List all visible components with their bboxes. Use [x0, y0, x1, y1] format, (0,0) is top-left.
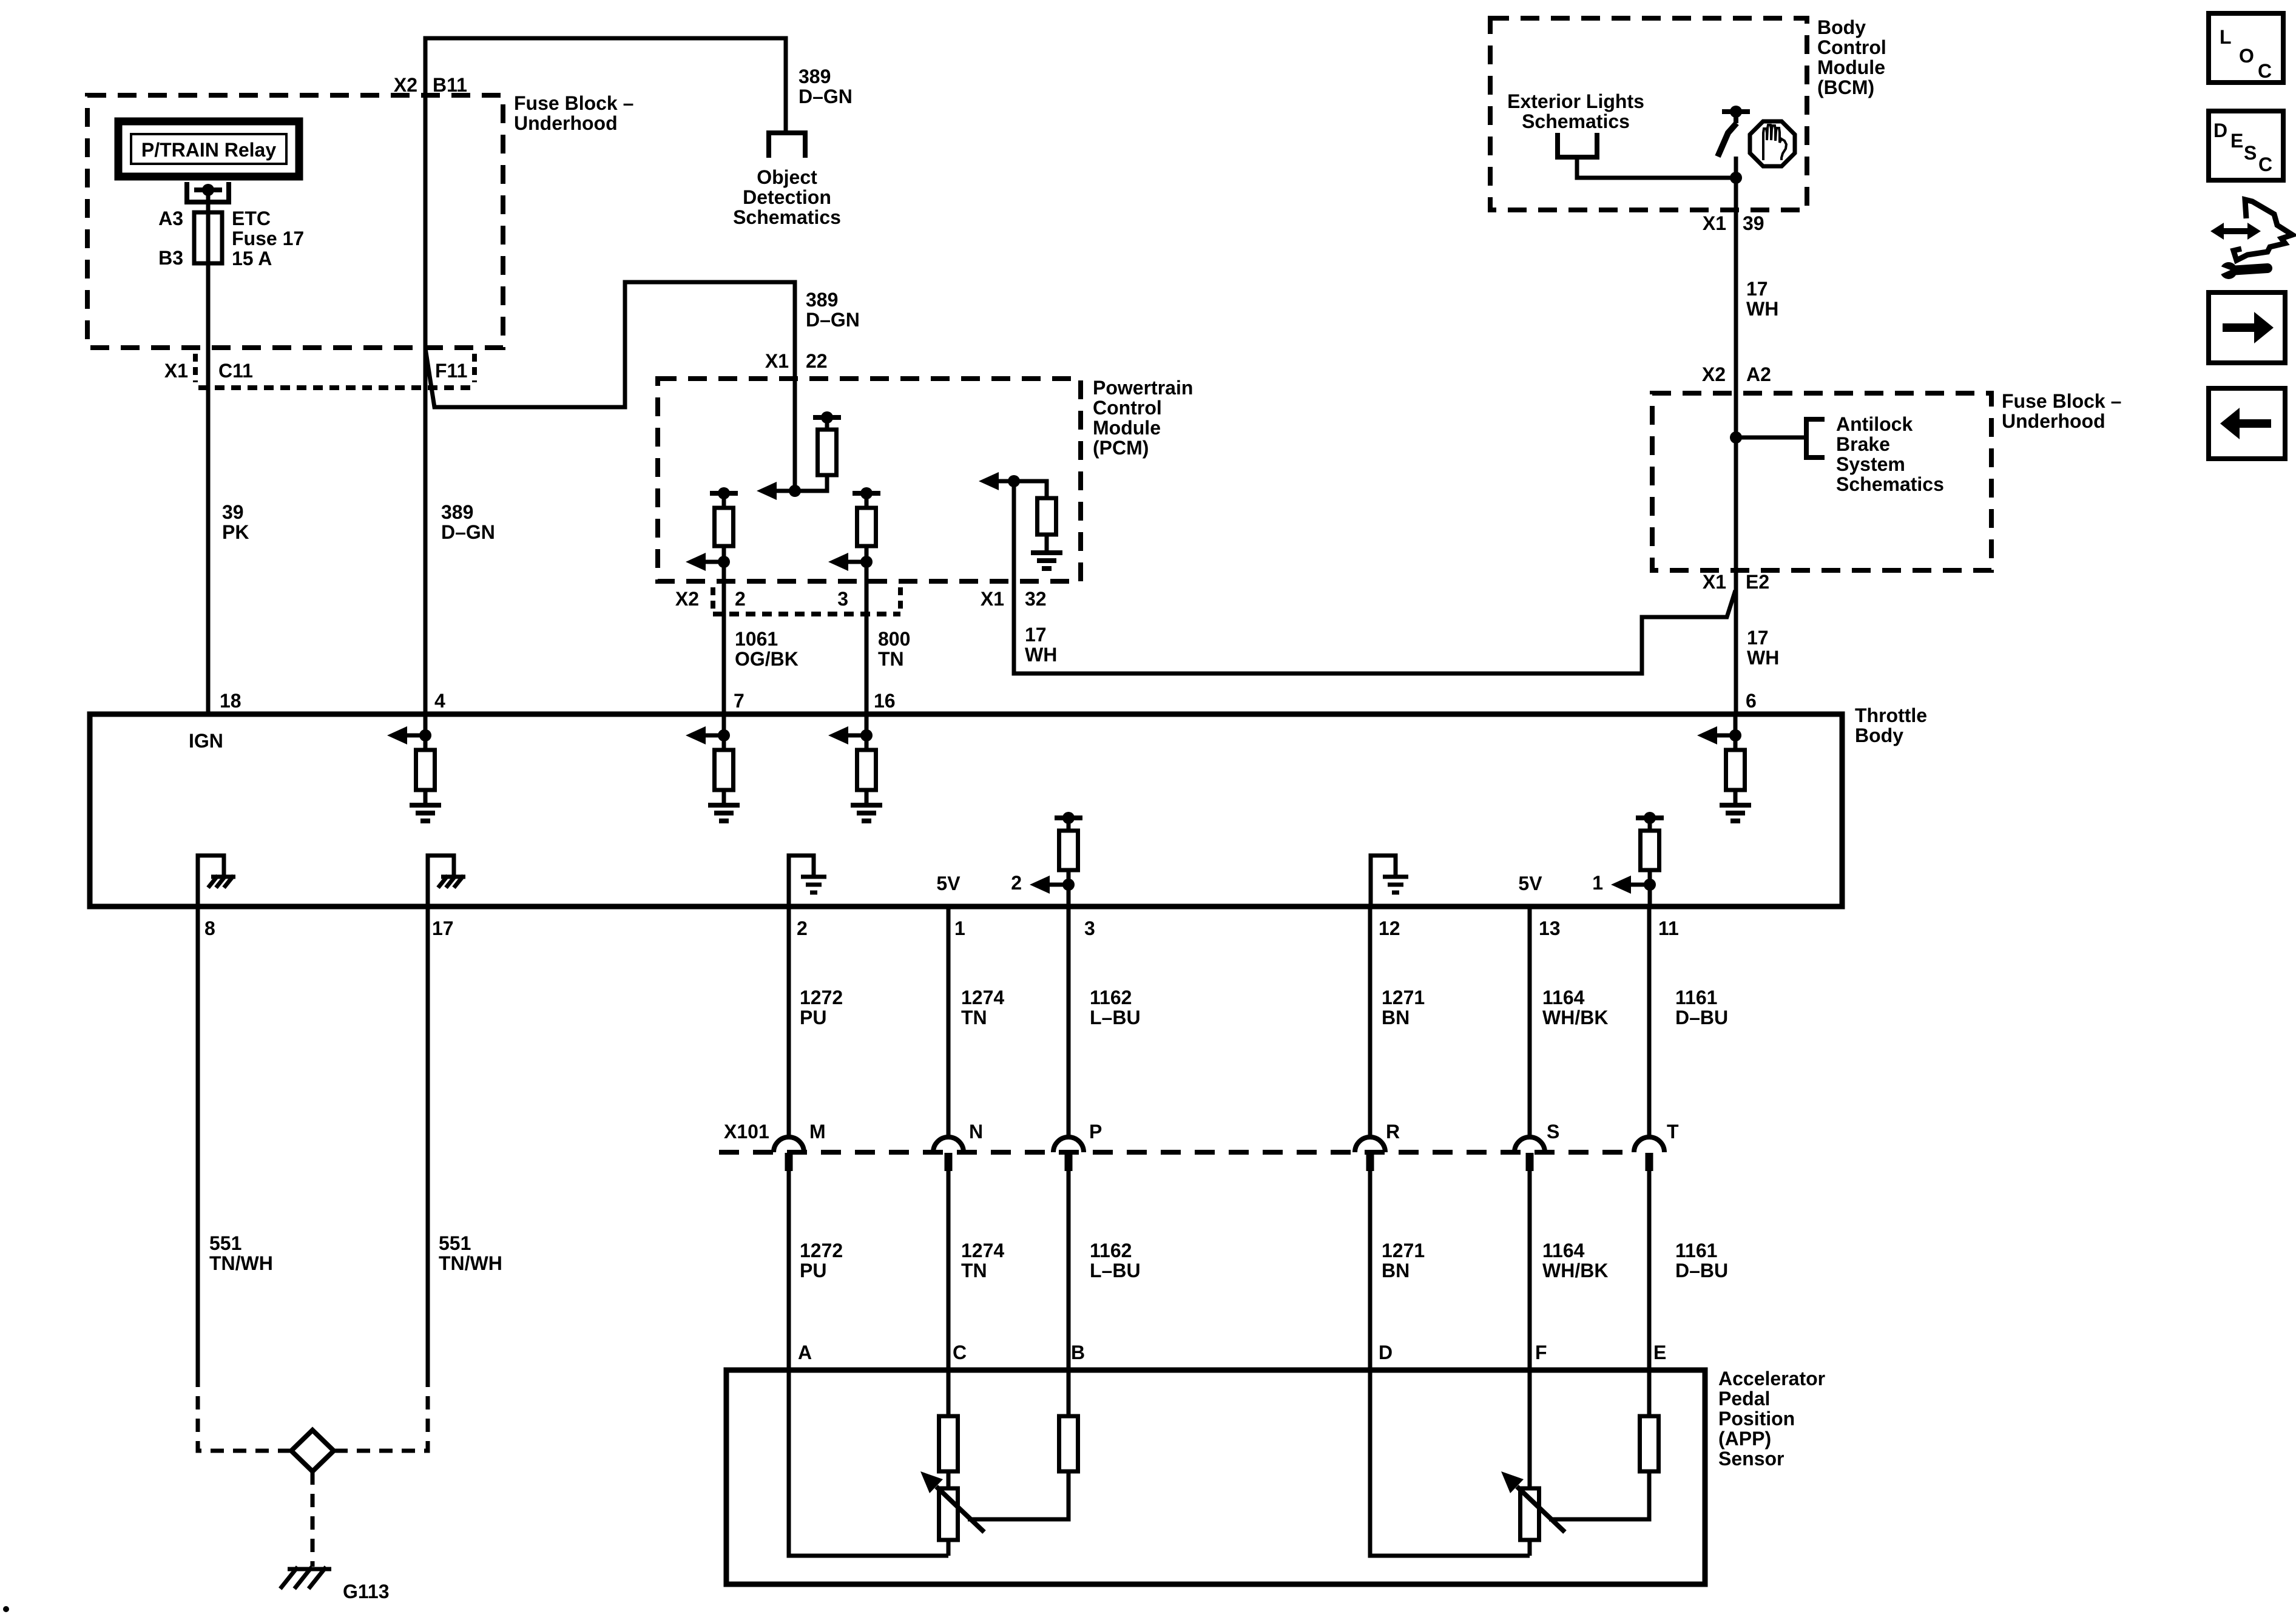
- svg-text:D–BU: D–BU: [1675, 1260, 1728, 1281]
- APP pot 2 element on F: [1528, 1370, 1532, 1488]
- svg-text:18: 18: [220, 690, 241, 712]
- svg-text:Accelerator: Accelerator: [1718, 1368, 1825, 1389]
- TB ground at pin 8: [198, 856, 224, 906]
- APP pot 1 low side to A: [789, 1370, 948, 1556]
- svg-text:Underhood: Underhood: [2002, 410, 2105, 432]
- svg-text:BN: BN: [1382, 1007, 1410, 1028]
- APP pot 2 wiper arrow: [1517, 1487, 1565, 1532]
- svg-text:PU: PU: [800, 1007, 826, 1028]
- APP pot 1: feed resistor on C: [947, 1370, 951, 1416]
- svg-text:389: 389: [806, 289, 838, 311]
- svg-text:1271: 1271: [1382, 1240, 1425, 1261]
- svg-text:389: 389: [441, 501, 473, 523]
- svg-text:1164: 1164: [1542, 987, 1585, 1008]
- svg-text:1: 1: [954, 917, 965, 939]
- svg-text:Schematics: Schematics: [733, 206, 841, 228]
- svg-text:A3: A3: [158, 208, 183, 229]
- svg-text:4: 4: [434, 690, 445, 712]
- connector X1 C11 row: [193, 354, 198, 382]
- stop hand octagon: [1750, 121, 1795, 166]
- icon full schematic (arrow + outline + wrench): [2210, 223, 2261, 240]
- svg-text:F11: F11: [435, 360, 467, 382]
- svg-text:X2: X2: [675, 588, 699, 610]
- P/TRAIN Relay: [118, 121, 299, 177]
- APP pot 1 element: [939, 1488, 958, 1540]
- svg-text:1274: 1274: [961, 987, 1004, 1008]
- off-page ref: Object Detection Schematics: [769, 133, 805, 158]
- wire 1162 L-BU (upper): [1067, 906, 1071, 1137]
- svg-text:T: T: [1667, 1121, 1679, 1143]
- svg-text:TN: TN: [878, 648, 904, 670]
- svg-text:1161: 1161: [1675, 987, 1717, 1008]
- svg-text:800: 800: [878, 628, 910, 650]
- svg-text:B11: B11: [433, 74, 467, 96]
- TB motor driver at pin 16: [860, 729, 873, 741]
- wire 551 TN/WH (pin 8): [196, 906, 200, 1374]
- TB motor driver at pin 4: [419, 729, 431, 741]
- fuse block underhood (left) dashed box: [87, 95, 503, 348]
- splice: [291, 1430, 334, 1471]
- svg-text:32: 32: [1025, 588, 1047, 610]
- svg-text:ETC: ETC: [232, 208, 271, 229]
- svg-text:X1: X1: [981, 588, 1004, 610]
- svg-text:551: 551: [209, 1232, 241, 1254]
- X101 pin T: [1634, 1137, 1664, 1152]
- svg-text:L–BU: L–BU: [1090, 1007, 1141, 1028]
- svg-text:Sensor: Sensor: [1718, 1448, 1784, 1470]
- fuse ETC Fuse 17 15 A: [194, 212, 222, 263]
- ground G113: [288, 1567, 331, 1571]
- wire 1272 PU (lower): [787, 1171, 791, 1370]
- wire 1271 BN (lower): [1368, 1171, 1373, 1370]
- svg-text:Fuse 17: Fuse 17: [232, 228, 304, 249]
- svg-text:1061: 1061: [735, 628, 778, 650]
- APP pot 2 wiper resistor on E: [1647, 1370, 1652, 1416]
- icon DESC: [2209, 111, 2283, 180]
- connector X2 pins 2,3 row under PCM: [711, 587, 715, 614]
- off-page ref: Antilock Brake System Schematics: [1730, 431, 1742, 444]
- Throttle Body box: [90, 714, 1842, 906]
- wire 17 WH from BCM: [1734, 157, 1738, 714]
- svg-text:Body: Body: [1855, 724, 1903, 746]
- svg-text:16: 16: [874, 690, 896, 712]
- svg-text:12: 12: [1379, 917, 1400, 939]
- wire 1274 TN (lower): [947, 1171, 951, 1370]
- svg-text:X1: X1: [1703, 212, 1726, 234]
- wire 551 TN/WH (pin 17): [426, 906, 430, 1374]
- svg-text:D–GN: D–GN: [799, 86, 853, 107]
- svg-text:17: 17: [432, 917, 454, 939]
- svg-text:15 A: 15 A: [232, 248, 272, 269]
- svg-text:E2: E2: [1746, 571, 1769, 593]
- X101 pin P: [1053, 1137, 1084, 1152]
- svg-text:D–GN: D–GN: [441, 521, 495, 543]
- svg-text:G113: G113: [343, 1581, 390, 1602]
- svg-text:1271: 1271: [1382, 987, 1425, 1008]
- TB ground at pin 17: [428, 856, 454, 906]
- PCM left driver (to pin 7): terminal, resistor R, junction, arrow: [710, 491, 738, 496]
- svg-text:1: 1: [1592, 872, 1603, 894]
- svg-text:Module: Module: [1093, 417, 1161, 439]
- svg-text:E: E: [2230, 130, 2243, 152]
- svg-text:39: 39: [1743, 212, 1764, 234]
- X101 pin R: [1355, 1137, 1385, 1152]
- svg-text:3: 3: [1084, 917, 1095, 939]
- APP pot 1 wiper resistor on B: [1067, 1370, 1071, 1416]
- svg-text:D: D: [1379, 1342, 1393, 1363]
- relay terminal A3: [187, 182, 229, 202]
- svg-text:B: B: [1071, 1342, 1085, 1363]
- wire 1161 D-BU (upper): [1647, 906, 1652, 1137]
- icon next (right arrow): [2209, 292, 2285, 363]
- svg-text:C11: C11: [218, 360, 253, 382]
- svg-text:(APP): (APP): [1718, 1428, 1771, 1450]
- svg-text:Control: Control: [1093, 397, 1162, 419]
- svg-text:Exterior Lights: Exterior Lights: [1507, 90, 1644, 112]
- svg-text:WH: WH: [1747, 647, 1779, 669]
- svg-text:Throttle: Throttle: [1855, 704, 1927, 726]
- svg-text:Object: Object: [757, 166, 817, 188]
- wire 1272 PU (upper): [787, 906, 791, 1137]
- svg-text:X1: X1: [164, 360, 188, 382]
- svg-text:X2: X2: [1702, 363, 1726, 385]
- svg-text:2: 2: [735, 588, 746, 610]
- svg-text:17: 17: [1747, 627, 1769, 649]
- svg-text:WH/BK: WH/BK: [1542, 1260, 1608, 1281]
- TB ground at pin 12: [1371, 856, 1396, 906]
- icon LOC: [2209, 13, 2283, 83]
- svg-text:Module: Module: [1817, 56, 1885, 78]
- svg-text:L–BU: L–BU: [1090, 1260, 1141, 1281]
- svg-text:L: L: [2220, 26, 2232, 48]
- svg-text:1162: 1162: [1090, 987, 1132, 1008]
- wire 1164 WH/BK (lower): [1528, 1171, 1532, 1370]
- svg-text:WH/BK: WH/BK: [1542, 1007, 1608, 1028]
- svg-text:2: 2: [797, 917, 808, 939]
- svg-text:WH: WH: [1746, 298, 1778, 320]
- svg-text:22: 22: [806, 350, 828, 372]
- wire 1162 L-BU (lower): [1067, 1171, 1071, 1370]
- dashed harness run to splice: [198, 1374, 290, 1451]
- svg-text:6: 6: [1746, 690, 1757, 712]
- svg-text:1161: 1161: [1675, 1240, 1717, 1261]
- wire 1274 TN (upper): [947, 906, 951, 1137]
- svg-text:1162: 1162: [1090, 1240, 1132, 1261]
- svg-text:M: M: [809, 1121, 826, 1143]
- svg-text:Fuse Block –: Fuse Block –: [514, 92, 633, 114]
- wire 1271 BN (upper): [1368, 906, 1373, 1137]
- wire 17 WH from PCM X1 32: [1014, 481, 1735, 673]
- TB sensor input at pin 11: [1636, 815, 1664, 820]
- X101 pin M: [774, 1137, 804, 1152]
- svg-text:17: 17: [1025, 624, 1047, 646]
- wire 389 D-GN branch from F11 to PCM X1 22: [425, 282, 795, 407]
- svg-text:D–GN: D–GN: [806, 309, 860, 331]
- X101 pin S: [1514, 1137, 1545, 1152]
- APP pot 2 low side to D: [1370, 1370, 1530, 1556]
- wire 389 D-GN from B11: [425, 38, 786, 133]
- svg-text:OG/BK: OG/BK: [735, 648, 799, 670]
- svg-text:X1: X1: [1703, 571, 1726, 593]
- svg-text:A: A: [798, 1342, 812, 1363]
- svg-text:C: C: [953, 1342, 967, 1363]
- svg-text:39: 39: [222, 501, 244, 523]
- Powertrain Control Module (PCM) dashed box: [658, 379, 1081, 581]
- svg-text:R: R: [1386, 1121, 1400, 1143]
- svg-text:1272: 1272: [800, 1240, 843, 1261]
- svg-text:551: 551: [439, 1232, 471, 1254]
- PCM middle driver (to pin 16): [853, 491, 880, 496]
- svg-text:C: C: [2258, 154, 2272, 175]
- svg-text:D–BU: D–BU: [1675, 1007, 1728, 1028]
- svg-text:IGN: IGN: [189, 730, 223, 752]
- svg-text:(PCM): (PCM): [1093, 437, 1149, 459]
- svg-text:O: O: [2239, 45, 2254, 67]
- wire 1164 WH/BK (upper): [1528, 906, 1532, 1137]
- svg-text:389: 389: [799, 66, 831, 87]
- svg-text:P: P: [1089, 1121, 1102, 1143]
- PCM terminal for pull-up: [813, 415, 841, 420]
- fuse block underhood (right) dashed box: [1652, 393, 1991, 570]
- svg-text:(BCM): (BCM): [1817, 76, 1874, 98]
- svg-text:E: E: [1653, 1342, 1666, 1363]
- svg-text:11: 11: [1658, 917, 1679, 939]
- TB ground at pin 2: [789, 856, 814, 906]
- PCM right: arrow, junction, resistor to ground: [979, 472, 999, 490]
- svg-text:F: F: [1535, 1342, 1547, 1363]
- svg-text:B3: B3: [158, 247, 183, 269]
- svg-text:TN: TN: [961, 1007, 987, 1028]
- svg-text:TN: TN: [961, 1260, 987, 1281]
- svg-text:Antilock: Antilock: [1836, 413, 1913, 435]
- TB sensor input at pin 3: [1055, 815, 1082, 820]
- svg-text:Fuse Block –: Fuse Block –: [2002, 390, 2121, 412]
- svg-text:13: 13: [1539, 917, 1561, 939]
- icon previous (left arrow): [2209, 388, 2285, 459]
- Accelerator Pedal Position (APP) Sensor box: [726, 1370, 1705, 1584]
- svg-text:Underhood: Underhood: [514, 112, 618, 134]
- svg-text:System: System: [1836, 453, 1905, 475]
- svg-text:BN: BN: [1382, 1260, 1410, 1281]
- svg-text:5V: 5V: [936, 873, 961, 894]
- svg-text:Schematics: Schematics: [1836, 473, 1944, 495]
- svg-text:7: 7: [734, 690, 745, 712]
- connector X101 dashed line: [719, 1150, 1633, 1155]
- svg-text:Position: Position: [1718, 1408, 1795, 1430]
- BCM switch: [1722, 109, 1750, 114]
- svg-text:Detection: Detection: [743, 186, 831, 208]
- svg-text:1164: 1164: [1542, 1240, 1585, 1261]
- svg-text:Pedal: Pedal: [1718, 1388, 1770, 1409]
- wire 1161 D-BU (lower): [1647, 1171, 1652, 1370]
- svg-text:C: C: [2258, 60, 2272, 82]
- svg-text:PK: PK: [222, 521, 249, 543]
- svg-text:S: S: [2244, 142, 2257, 164]
- X101 pin N: [933, 1137, 964, 1152]
- Body Control Module (BCM) dashed box: [1490, 18, 1807, 210]
- svg-text:PU: PU: [800, 1260, 826, 1281]
- PCM internal: wire in, junction, arrow, pull-up resistor: [793, 379, 797, 491]
- svg-text:A2: A2: [1746, 363, 1771, 385]
- svg-text:3: 3: [837, 588, 848, 610]
- svg-text:TN/WH: TN/WH: [439, 1252, 502, 1274]
- page dot: [3, 1606, 9, 1612]
- APP pot 1 wiper arrow: [936, 1487, 984, 1532]
- svg-text:N: N: [969, 1121, 983, 1143]
- svg-text:Control: Control: [1817, 36, 1886, 58]
- svg-text:X101: X101: [724, 1121, 769, 1143]
- svg-text:1272: 1272: [800, 987, 843, 1008]
- svg-text:TN/WH: TN/WH: [209, 1252, 273, 1274]
- svg-text:Schematics: Schematics: [1522, 110, 1630, 132]
- svg-text:Brake: Brake: [1836, 433, 1890, 455]
- svg-text:1274: 1274: [961, 1240, 1004, 1261]
- TB motor driver at pin 7: [718, 729, 730, 741]
- svg-text:2: 2: [1011, 872, 1022, 894]
- svg-text:Body: Body: [1817, 16, 1866, 38]
- svg-text:Powertrain: Powertrain: [1093, 377, 1193, 399]
- svg-text:X1: X1: [765, 350, 789, 372]
- TB motor driver at pin 6: [1729, 729, 1741, 741]
- svg-text:P/TRAIN Relay: P/TRAIN Relay: [141, 139, 276, 161]
- svg-text:17: 17: [1746, 278, 1768, 300]
- svg-text:X2: X2: [394, 74, 417, 96]
- svg-text:WH: WH: [1025, 644, 1057, 666]
- wire 39 PK (fuse to throttle body pin 18): [206, 263, 211, 714]
- svg-text:8: 8: [204, 917, 215, 939]
- svg-text:D: D: [2213, 120, 2227, 141]
- svg-text:5V: 5V: [1518, 873, 1542, 894]
- svg-text:S: S: [1547, 1121, 1559, 1143]
